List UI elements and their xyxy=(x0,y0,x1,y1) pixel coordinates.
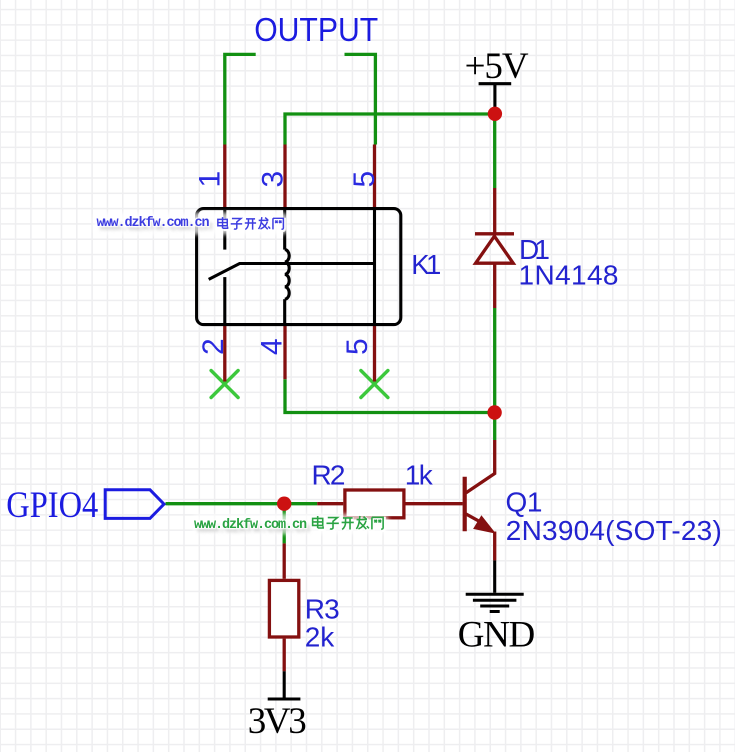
svg-text:+5V: +5V xyxy=(465,46,529,87)
svg-text:1k: 1k xyxy=(405,459,434,490)
svg-text:3V3: 3V3 xyxy=(248,701,307,742)
svg-text:3: 3 xyxy=(257,171,290,188)
svg-text:Q1: Q1 xyxy=(506,486,543,517)
svg-text:R3: R3 xyxy=(305,594,340,625)
svg-text:GPIO4: GPIO4 xyxy=(6,485,98,526)
svg-text:GND: GND xyxy=(458,614,536,655)
svg-text:5: 5 xyxy=(341,338,374,355)
svg-text:OUTPUT: OUTPUT xyxy=(254,11,378,48)
svg-text:2k: 2k xyxy=(305,622,336,653)
svg-text:5: 5 xyxy=(348,171,381,188)
svg-text:K1: K1 xyxy=(411,249,441,280)
svg-text:1: 1 xyxy=(194,171,227,188)
svg-text:2N3904(SOT-23): 2N3904(SOT-23) xyxy=(506,515,722,546)
svg-text:4: 4 xyxy=(255,338,288,355)
svg-text:1N4148: 1N4148 xyxy=(519,259,619,290)
svg-text:R2: R2 xyxy=(312,459,346,490)
svg-text:2: 2 xyxy=(197,338,230,355)
